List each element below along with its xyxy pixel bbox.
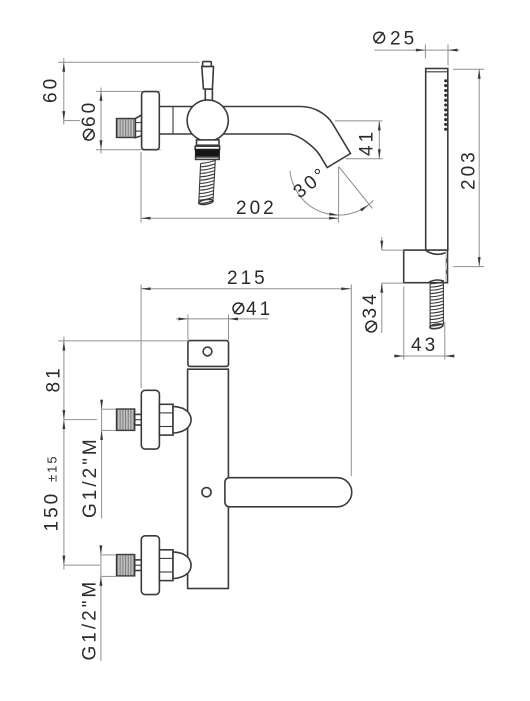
svg-text:60: 60	[79, 100, 100, 127]
valve assembly 1	[117, 390, 192, 449]
dimension phi25	[374, 29, 460, 66]
svg-text:215: 215	[227, 268, 268, 289]
valve assembly 2	[117, 536, 192, 595]
escutcheon plate 1	[141, 390, 159, 449]
svg-text:203: 203	[459, 149, 480, 190]
svg-text:±15: ±15	[45, 454, 60, 482]
dimension G1/2"M top	[80, 400, 116, 519]
dimension phi60 vertical	[79, 88, 161, 154]
lever handle	[202, 62, 214, 102]
svg-text:202: 202	[236, 198, 277, 219]
hex nut 1	[159, 404, 173, 435]
dimension 41	[335, 121, 383, 159]
SIDE VIEW GROUP	[41, 58, 383, 223]
dimension 150 +-15	[42, 420, 100, 570]
svg-text:150: 150	[42, 491, 63, 532]
spout (front view)	[225, 478, 352, 507]
svg-text:34: 34	[360, 291, 381, 318]
spray dots on wand	[444, 79, 447, 131]
ball valve body	[187, 100, 228, 141]
neck below ball	[197, 140, 220, 145]
faucet body pipe and spout (side view)	[159, 107, 350, 168]
connector stub 1	[135, 414, 142, 425]
wall bracket with hole	[188, 341, 229, 367]
svg-text:41: 41	[246, 299, 273, 320]
joint line on pipe	[172, 107, 174, 135]
svg-text:41: 41	[357, 129, 378, 156]
dark band	[195, 150, 219, 157]
svg-text:60: 60	[41, 76, 62, 103]
union dome 2	[173, 552, 191, 579]
svg-text:G1/2"M: G1/2"M	[80, 436, 101, 518]
svg-text:G1/2"M: G1/2"M	[79, 579, 100, 661]
flexible hose coil (side view)	[198, 160, 215, 205]
faucet body column	[188, 369, 229, 588]
collar between nipple and flange	[135, 115, 141, 138]
screw hole on body	[202, 488, 211, 497]
svg-text:43: 43	[411, 335, 438, 356]
threaded inlet G1/2 nipple 1	[117, 409, 135, 430]
dimension phi41	[176, 299, 273, 340]
svg-text:25: 25	[390, 29, 417, 50]
dimension G1/2"M bottom	[79, 545, 116, 661]
hand shower wand	[426, 69, 448, 251]
dimension 203	[453, 69, 484, 266]
escutcheon plate 2	[141, 536, 159, 595]
shower hose coil	[429, 280, 444, 330]
dimension 60 vertical	[41, 58, 81, 125]
30 degree angle annotation	[290, 163, 374, 222]
dimension 43	[394, 287, 454, 360]
svg-text:81: 81	[44, 365, 65, 392]
ring 2	[196, 157, 220, 160]
shower holder bracket	[404, 250, 448, 283]
hex nut 2	[159, 550, 173, 581]
union dome 1	[173, 406, 191, 433]
dimension 202	[141, 152, 339, 223]
wall flange escutcheon (side view)	[142, 92, 160, 150]
threaded inlet G1/2 nipple 2	[117, 555, 135, 576]
SHOWER GROUP	[360, 29, 484, 360]
connector stub 2	[135, 560, 142, 571]
dimension 215	[141, 268, 351, 476]
dimension 81	[44, 337, 189, 420]
ring	[195, 146, 219, 149]
threaded inlet nipple (side view)	[117, 119, 136, 138]
dimension phi34	[360, 237, 404, 333]
wire: extension line from handle top for dim 60	[58, 61, 200, 63]
FRONT VIEW GROUP	[42, 268, 352, 661]
